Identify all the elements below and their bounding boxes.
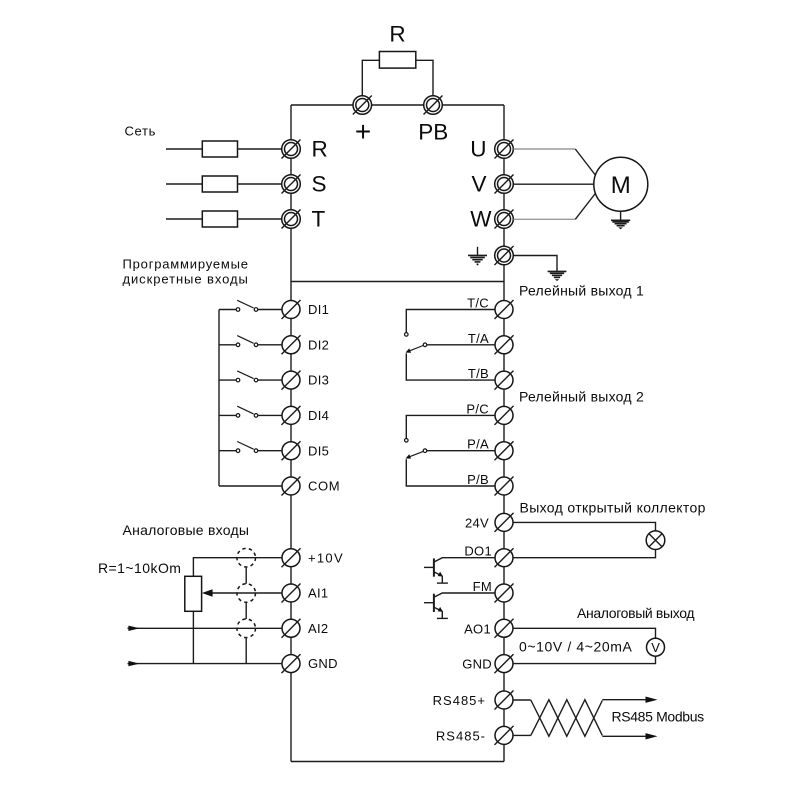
- wire bottom bus: [291, 761, 504, 763]
- terminal T/A: [468, 331, 514, 355]
- wire RS485+ stub: [514, 699, 531, 701]
- svg-text:R=1~10kOm: R=1~10kOm: [98, 560, 181, 576]
- svg-text:PB: PB: [418, 120, 448, 145]
- terminal R: [282, 137, 328, 162]
- terminal AI1: [282, 584, 329, 603]
- terminal T/B: [468, 366, 514, 390]
- svg-text:AI1: AI1: [308, 586, 328, 601]
- terminal S: [282, 172, 327, 197]
- svg-text:R: R: [312, 137, 328, 162]
- voltmeter V: [647, 638, 665, 656]
- ground terminal: [495, 246, 514, 265]
- svg-text:Сеть: Сеть: [125, 124, 157, 139]
- wire V to motor: [514, 183, 594, 185]
- wire AI2 row (external): [128, 626, 283, 631]
- svg-text:RS485-: RS485-: [436, 729, 486, 744]
- transistor Q1 (DO1): [424, 558, 495, 583]
- terminal U: [470, 137, 513, 162]
- svg-text:T: T: [312, 207, 326, 232]
- wire COM: [219, 485, 282, 487]
- terminal DO1: [464, 544, 513, 568]
- terminal +: [353, 96, 372, 148]
- svg-text:V: V: [651, 640, 660, 655]
- wire 24V to lamp: [514, 522, 656, 531]
- wire U to motor: [514, 148, 576, 150]
- label Программируемые дискретные входы: [123, 257, 249, 287]
- svg-text:V: V: [471, 172, 486, 197]
- svg-text:RS485+: RS485+: [433, 693, 486, 708]
- svg-text:DI4: DI4: [308, 408, 329, 423]
- terminal PB: [418, 96, 448, 145]
- terminal RS485-: [436, 726, 514, 745]
- svg-text:AI2: AI2: [308, 621, 328, 636]
- terminal RS485+: [433, 691, 514, 710]
- svg-text:DI2: DI2: [308, 337, 329, 352]
- svg-text:GND: GND: [308, 656, 338, 671]
- twisted pair A: [531, 700, 603, 737]
- terminal AO1: [464, 619, 513, 638]
- terminal GND (left): [282, 654, 338, 673]
- terminal DI2: [282, 335, 330, 354]
- terminal W: [470, 207, 513, 232]
- wire GND row (external): [128, 661, 283, 666]
- fuse F3: [166, 211, 282, 227]
- wiper arrow: [202, 589, 282, 597]
- terminal FM: [473, 579, 514, 603]
- svg-text:DI3: DI3: [308, 373, 329, 388]
- shield ring 3 (AI2): [237, 619, 256, 638]
- svg-text:S: S: [312, 172, 327, 197]
- wire divider: [291, 281, 504, 283]
- wire RS485 upper out: [602, 699, 647, 701]
- svg-text:Релейный выход 1: Релейный выход 1: [519, 282, 644, 298]
- ground (motor): [611, 211, 630, 229]
- svg-text:GND: GND: [462, 657, 492, 672]
- svg-text:Аналоговые входы: Аналоговые входы: [123, 522, 250, 538]
- svg-text:DI5: DI5: [308, 443, 329, 458]
- svg-text:T/B: T/B: [468, 366, 489, 381]
- terminal P/A: [467, 437, 513, 461]
- svg-text:FM: FM: [473, 579, 492, 594]
- wire lamp to DO1: [514, 550, 656, 558]
- svg-text:дискретные входы: дискретные входы: [123, 271, 249, 286]
- wire ground terminal to earth: [514, 256, 558, 272]
- svg-text:AO1: AO1: [464, 621, 491, 636]
- terminal DI3: [282, 371, 330, 390]
- wire RS485 lower out: [602, 735, 647, 737]
- twisted pair B: [531, 700, 603, 737]
- svg-text:P/C: P/C: [466, 401, 489, 416]
- relay contact K1: [405, 310, 496, 381]
- switch S3 (DI3): [219, 371, 282, 382]
- terminal AI2: [282, 619, 329, 638]
- svg-text:P/B: P/B: [467, 472, 489, 487]
- fuse F1: [166, 141, 282, 157]
- svg-text:T/A: T/A: [468, 331, 489, 346]
- svg-text:T/C: T/C: [467, 296, 489, 311]
- wire left bus: [290, 105, 292, 762]
- relay contact K2: [405, 415, 496, 486]
- ground symbol (left of ground terminal): [468, 247, 487, 266]
- terminal 24V: [465, 513, 514, 532]
- switch S1 (DI1): [219, 300, 282, 311]
- svg-text:R: R: [389, 22, 405, 47]
- wire potentiometer bottom: [192, 611, 194, 663]
- terminal COM: [282, 477, 341, 496]
- switch S5 (DI5): [219, 442, 282, 453]
- motor M: [594, 157, 648, 211]
- svg-text:DO1: DO1: [464, 544, 492, 559]
- wire resistor right leg: [416, 60, 433, 96]
- svg-text:+: +: [355, 116, 371, 147]
- terminal V: [471, 172, 513, 197]
- svg-text:24V: 24V: [465, 516, 489, 531]
- wire right bus: [503, 105, 505, 762]
- terminal +10V: [282, 548, 344, 567]
- svg-text:DI1: DI1: [308, 302, 329, 317]
- svg-text:M: M: [611, 172, 631, 199]
- wire top bus: [291, 104, 504, 106]
- svg-text:U: U: [470, 137, 486, 162]
- svg-text:COM: COM: [308, 479, 340, 494]
- potentiometer R: [185, 576, 202, 611]
- svg-text:RS485 Modbus: RS485 Modbus: [612, 709, 705, 725]
- svg-text:Программируемые: Программируемые: [123, 257, 249, 272]
- shield ring 2 (AI1): [237, 584, 256, 603]
- ground symbol (right): [548, 271, 567, 281]
- lamp HL: [646, 531, 665, 550]
- resistor R (braking): [379, 22, 415, 69]
- wire W to motor: [514, 218, 576, 220]
- wire resistor left leg: [362, 60, 379, 96]
- fuse F2: [166, 176, 282, 192]
- svg-text:W: W: [470, 207, 492, 232]
- terminal DI4: [282, 406, 330, 425]
- wire voltmeter to GND: [514, 656, 656, 663]
- terminal DI1: [282, 300, 330, 319]
- switch S2 (DI2): [219, 336, 282, 347]
- terminal P/B: [467, 472, 513, 496]
- wire RS485- stub: [514, 734, 531, 736]
- terminal T: [282, 207, 326, 232]
- terminal GND (right): [462, 654, 513, 673]
- svg-text:Выход открытый коллектор: Выход открытый коллектор: [520, 499, 706, 515]
- shield ring 1 (+10V): [237, 548, 256, 567]
- transistor Q2 (FM): [424, 593, 495, 618]
- terminal T/C: [467, 296, 513, 320]
- terminal DI5: [282, 441, 330, 460]
- wire DI switch bus: [218, 310, 220, 487]
- svg-text:Аналоговый выход: Аналоговый выход: [577, 605, 694, 621]
- svg-text:0~10V / 4~20mA: 0~10V / 4~20mA: [519, 639, 633, 655]
- svg-text:+10V: +10V: [308, 550, 344, 565]
- wire shield drain to GND: [245, 638, 247, 664]
- wire AO1 to voltmeter: [514, 628, 656, 638]
- terminal P/C: [466, 401, 513, 425]
- wire shield link 1-2: [245, 567, 247, 584]
- switch S4 (DI4): [219, 406, 282, 417]
- wire shield link 2-3: [245, 602, 247, 619]
- svg-text:P/A: P/A: [467, 437, 489, 452]
- wire +10V row: [193, 558, 282, 577]
- svg-text:Релейный выход 2: Релейный выход 2: [519, 389, 644, 405]
